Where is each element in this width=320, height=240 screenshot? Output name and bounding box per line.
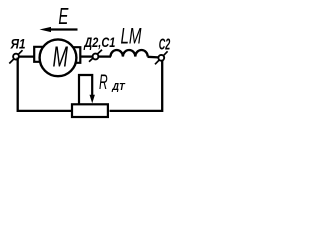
svg-text:С2: С2 (159, 36, 171, 53)
arrow for E (pointing left) (50, 28, 78, 30)
terminal D2,C1 (89, 50, 102, 62)
inductor LM coil (111, 50, 148, 57)
svg-text:LM: LM (121, 24, 142, 49)
motor M1 circle (40, 39, 77, 76)
wire terminal D2,C1 to inductor (98, 55, 111, 57)
wire C2 down right side (110, 60, 163, 111)
wiper arrowhead (90, 95, 95, 104)
wire left side down from YA1 (18, 58, 72, 111)
svg-text:R: R (99, 70, 108, 94)
svg-text:ДТ: ДТ (111, 81, 126, 93)
terminal C2 (155, 51, 168, 64)
terminal YA1 (9, 50, 22, 63)
svg-text:E: E (58, 3, 68, 29)
svg-text:М: М (53, 42, 69, 74)
motor left brush bracket (34, 47, 43, 62)
wire right brush to terminal D2,C1 (80, 55, 93, 57)
wiper wire of R_DT (79, 75, 92, 105)
wire YA1 to left brush (18, 55, 34, 57)
resistor R_DT body (72, 104, 108, 117)
svg-text:Я1: Я1 (10, 37, 26, 52)
motor right brush bracket (73, 47, 80, 63)
svg-text:Д2,С1: Д2,С1 (84, 34, 116, 50)
wire inductor to terminal C2 (148, 56, 159, 59)
